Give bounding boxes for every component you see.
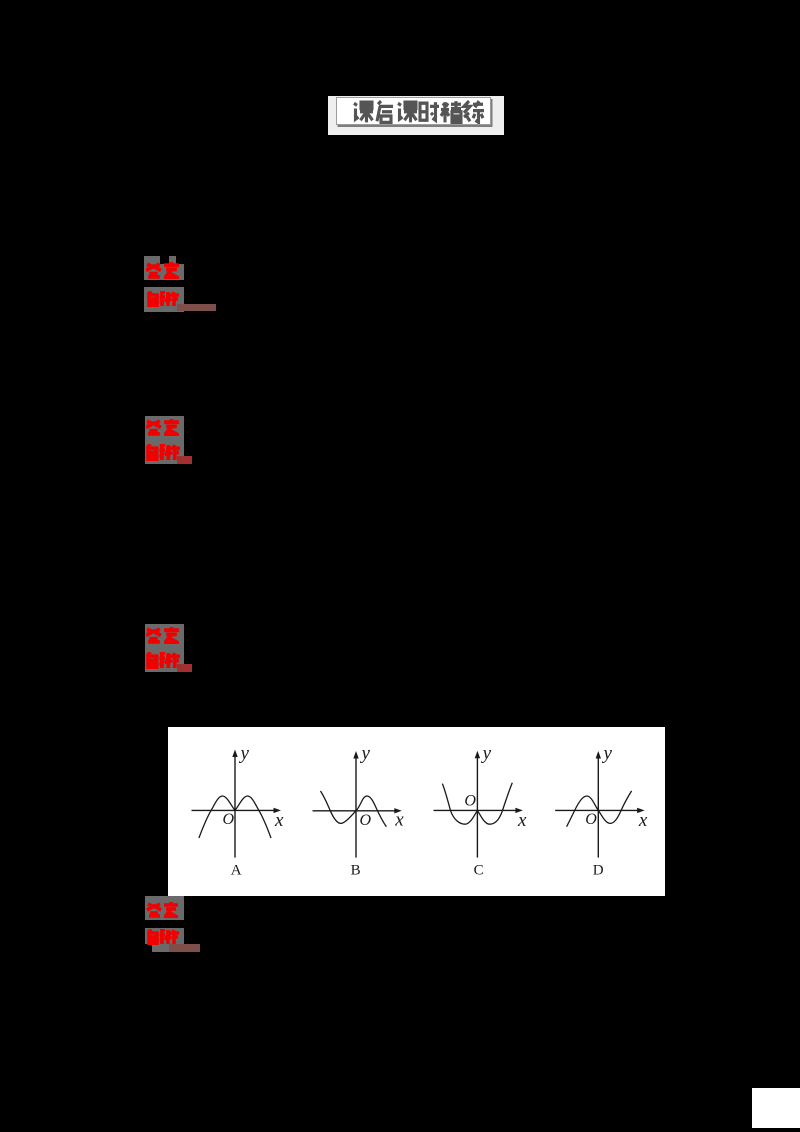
svg-text:O: O <box>464 793 476 810</box>
svg-text:A: A <box>230 863 241 879</box>
svg-text:x: x <box>274 810 284 831</box>
svg-text:y: y <box>238 743 249 764</box>
svg-text:x: x <box>394 810 404 831</box>
svg-text:O: O <box>585 811 597 828</box>
svg-text:x: x <box>517 810 527 831</box>
svg-text:y: y <box>480 743 491 764</box>
svg-text:O: O <box>359 812 371 829</box>
svg-text:D: D <box>592 863 603 879</box>
svg-text:B: B <box>350 863 360 879</box>
svg-text:x: x <box>637 810 647 831</box>
svg-text:y: y <box>359 743 370 764</box>
svg-text:y: y <box>601 743 612 764</box>
svg-text:O: O <box>222 811 234 828</box>
svg-text:C: C <box>473 863 483 879</box>
